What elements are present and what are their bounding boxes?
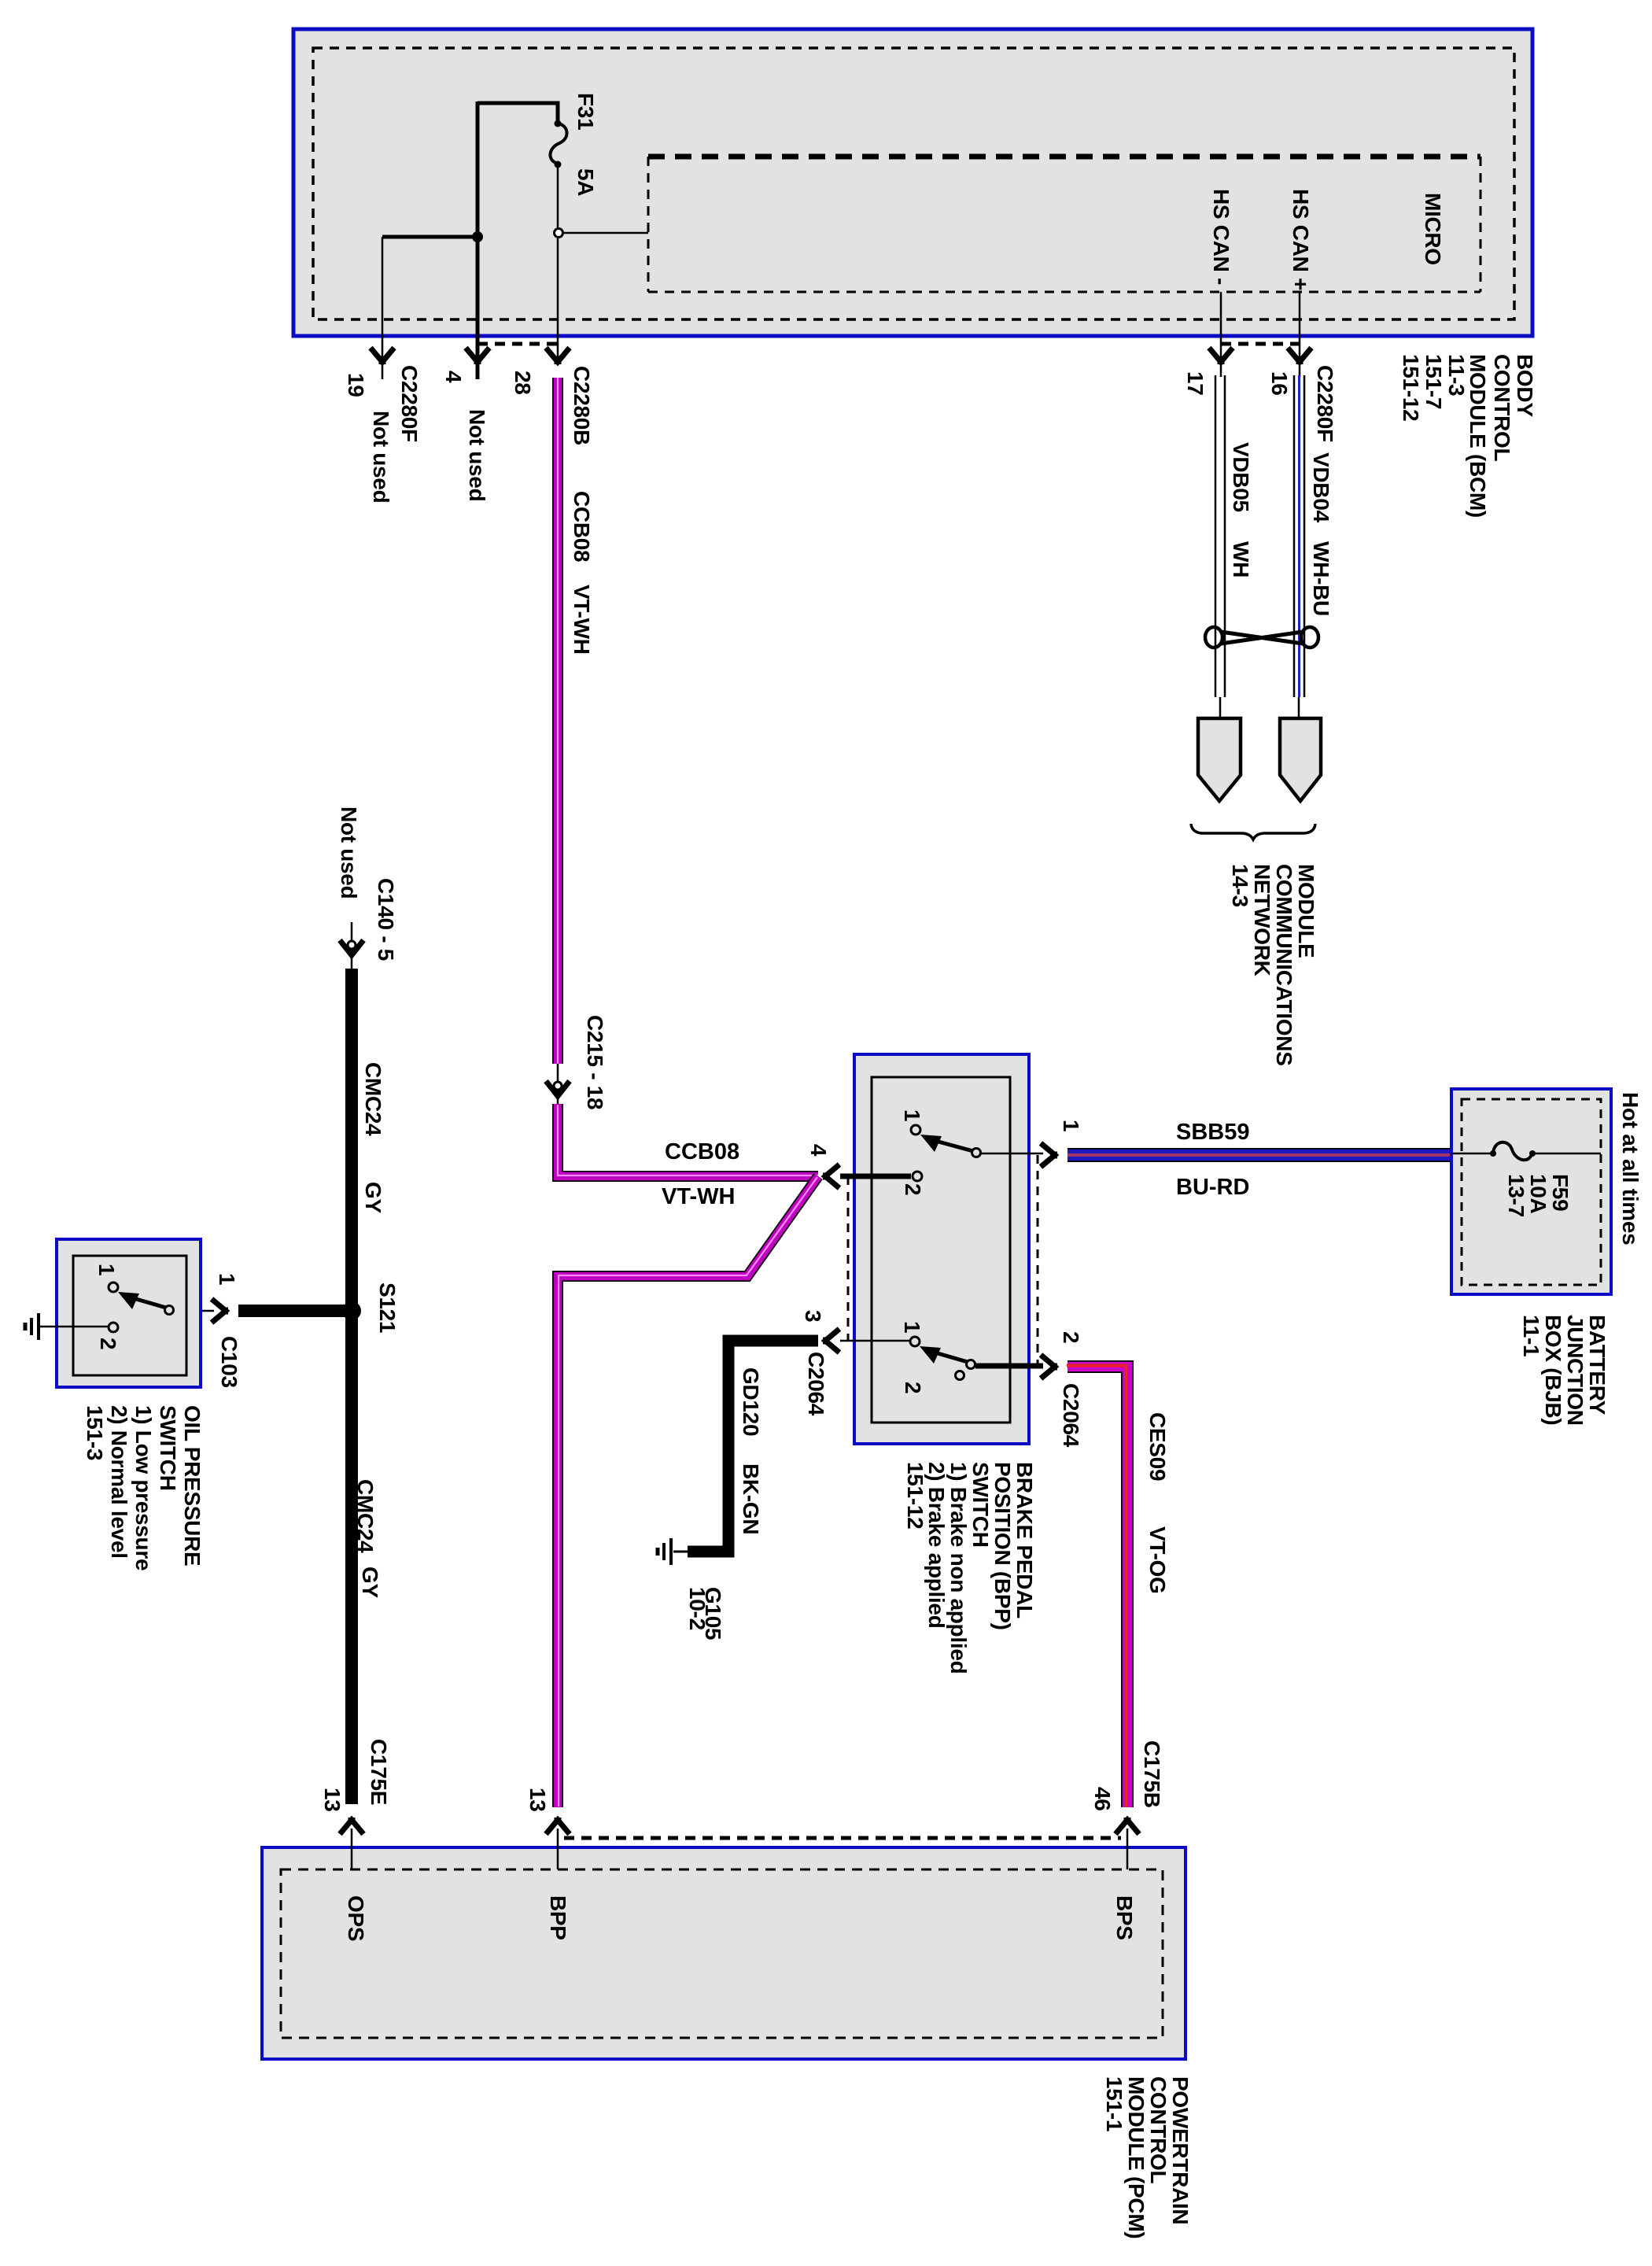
pin 4 connector arrow (BPP left) — [823, 1164, 839, 1188]
svg-text:VDB04: VDB04 — [1309, 452, 1333, 522]
svg-text:VT-WH: VT-WH — [570, 585, 594, 655]
wire BCM pin 16 lead — [1299, 292, 1301, 377]
switch SW1 terminal 1 circle — [911, 1125, 920, 1135]
wire pin 19 lead — [382, 237, 384, 379]
wire terminal 2 to ground — [39, 1326, 109, 1328]
BPP inner rectangle — [872, 1077, 1010, 1423]
ground (OPS) — [25, 1313, 39, 1340]
wire terminal 1 to pin 3 — [840, 1340, 910, 1342]
svg-text:MICRO: MICRO — [1421, 193, 1445, 265]
svg-text:1: 1 — [215, 1273, 239, 1285]
svg-text:BATTERY: BATTERY — [1585, 1315, 1610, 1415]
svg-text:C103: C103 — [217, 1336, 242, 1388]
splice S121 junction dot — [342, 1301, 361, 1320]
brace grouping network — [1191, 824, 1315, 840]
svg-text:1: 1 — [94, 1264, 119, 1275]
switch S2 common circle — [165, 1306, 174, 1315]
wire internal thick vertical (pin 4 feed) — [476, 101, 480, 379]
terminal lug left — [1198, 718, 1241, 801]
switch S2 terminal 1 circle — [109, 1282, 118, 1292]
svg-text:13: 13 — [320, 1788, 345, 1812]
switch SW2 common circle — [967, 1360, 975, 1369]
svg-text:VT-WH: VT-WH — [662, 1184, 735, 1209]
OPS inner rectangle — [73, 1256, 186, 1375]
BJB inner dashed border — [1462, 1099, 1601, 1285]
wire CCB08 VT-WH lower run to PCM — [558, 1176, 818, 1807]
wire open terminal to MICRO box — [563, 232, 648, 234]
module U1 BODY CONTROL MODULE (BCM) box — [293, 29, 1532, 336]
svg-text:CCB08: CCB08 — [570, 491, 594, 562]
wire BCM pin 17 lead — [1220, 292, 1222, 377]
pin 3 connector arrow (BPP left bottom) — [823, 1329, 839, 1353]
ground G105 — [658, 1538, 688, 1565]
svg-text:2: 2 — [901, 1183, 925, 1195]
MICRO sub-box dashed — [648, 157, 1481, 292]
wire switch common to pin 1 — [981, 1153, 1043, 1155]
svg-text:17: 17 — [1183, 371, 1208, 396]
switch SW1 arm with arrowhead — [920, 1135, 973, 1152]
svg-text:GY: GY — [361, 1182, 385, 1213]
junction dot on thick wire — [472, 231, 483, 242]
svg-text:19: 19 — [344, 373, 368, 397]
svg-text:C2280F: C2280F — [1313, 365, 1337, 442]
wire BJB internal left — [1451, 1153, 1493, 1155]
svg-text:POSITION (BPP): POSITION (BPP) — [990, 1462, 1015, 1630]
node open terminal circle — [555, 229, 563, 238]
wire CCB08 VT-WH upper vertical run — [552, 378, 563, 1064]
svg-text:46: 46 — [1090, 1787, 1115, 1811]
svg-text:BPS: BPS — [1112, 1895, 1137, 1940]
wire internal bus to fuse F31 — [478, 103, 558, 122]
svg-text:MODULE (PCM): MODULE (PCM) — [1124, 2076, 1149, 2238]
svg-text:28: 28 — [511, 371, 535, 395]
svg-text:JUNCTION: JUNCTION — [1563, 1315, 1587, 1426]
module BATTERY JUNCTION BOX (BJB) — [1451, 1089, 1611, 1294]
wire internal branch to pin 19 — [382, 235, 478, 239]
svg-text:CCB08: CCB08 — [665, 1139, 739, 1164]
svg-text:SBB59: SBB59 — [1176, 1120, 1250, 1145]
switch SW2 arm with arrowhead — [920, 1346, 968, 1364]
wire fuse to pin 28 — [557, 237, 559, 360]
svg-text:151-1: 151-1 — [1102, 2076, 1127, 2131]
svg-text:BODY: BODY — [1513, 354, 1537, 417]
switch SW1 terminal 2 circle — [913, 1172, 922, 1181]
twist symbol capsule right — [1301, 627, 1318, 648]
switch S2 terminal 2 circle — [109, 1323, 118, 1332]
svg-text:CONTROL: CONTROL — [1490, 354, 1514, 462]
svg-text:13-7: 13-7 — [1504, 1174, 1528, 1217]
svg-text:GY: GY — [358, 1567, 382, 1598]
connector C215-18 inline — [546, 1064, 570, 1104]
wire SBB59 BU-RD — [1068, 1148, 1451, 1162]
twist crossing wires — [1221, 632, 1303, 644]
PCM inner dashed border — [281, 1869, 1163, 2038]
connector C140-5 inline — [340, 922, 363, 969]
pin 1 connector arrow (OPS) — [212, 1299, 228, 1323]
svg-text:Hot at all times: Hot at all times — [1618, 1092, 1643, 1245]
svg-text:13: 13 — [525, 1788, 550, 1812]
svg-text:1: 1 — [1059, 1120, 1083, 1131]
switch S2 arm with arrowhead — [118, 1292, 166, 1309]
svg-text:WH: WH — [1229, 541, 1253, 578]
svg-text:2) Normal level: 2) Normal level — [107, 1405, 131, 1559]
pin 1 connector arrow (BPP right top) — [1041, 1143, 1057, 1167]
svg-text:HS CAN +: HS CAN + — [1289, 189, 1313, 290]
svg-text:OPS: OPS — [344, 1895, 368, 1941]
pin 2 connector arrow (BPP right bottom) — [1041, 1355, 1057, 1378]
svg-text:10-2: 10-2 — [685, 1587, 710, 1630]
pin 16 connector arrow — [1288, 348, 1311, 364]
svg-text:VDB05: VDB05 — [1229, 442, 1253, 512]
wire S121 to OPS — [238, 1305, 352, 1317]
svg-text:Not used: Not used — [465, 409, 489, 501]
svg-text:WH-BU: WH-BU — [1309, 541, 1333, 616]
svg-text:1: 1 — [900, 1321, 924, 1333]
connector C2064 dashed line right — [1037, 1155, 1039, 1367]
svg-text:SWITCH: SWITCH — [156, 1405, 180, 1491]
switch SW2 terminal 1 circle — [910, 1337, 920, 1346]
svg-text:F59: F59 — [1548, 1174, 1573, 1211]
svg-text:GD120: GD120 — [739, 1367, 763, 1436]
svg-text:14-3: 14-3 — [1228, 864, 1252, 907]
BCM inner dashed border — [313, 48, 1514, 319]
svg-text:CMC24: CMC24 — [353, 1479, 378, 1553]
svg-text:CONTROL: CONTROL — [1146, 2076, 1171, 2184]
svg-text:BU-RD: BU-RD — [1176, 1175, 1249, 1200]
wire fuse output lead — [557, 164, 559, 229]
svg-text:C2280B: C2280B — [570, 366, 594, 445]
svg-text:MODULE: MODULE — [1294, 864, 1318, 958]
svg-text:151-12: 151-12 — [1399, 354, 1423, 421]
wire switch SW2 common to pin 2 — [975, 1364, 1043, 1369]
svg-text:POWERTRAIN: POWERTRAIN — [1168, 2076, 1193, 2224]
svg-text:3: 3 — [801, 1310, 825, 1322]
svg-text:BOX (BJB): BOX (BJB) — [1541, 1315, 1565, 1425]
svg-text:151-3: 151-3 — [83, 1405, 107, 1460]
connector C2064 dashed line left — [847, 1176, 850, 1341]
module S2 OIL PRESSURE SWITCH box — [57, 1239, 201, 1387]
pin 19 connector arrow — [371, 348, 394, 364]
svg-text:VT-OG: VT-OG — [1145, 1526, 1170, 1594]
wire CCB08 VT-WH to BPP pin 4 — [558, 1104, 818, 1176]
svg-text:BK-GN: BK-GN — [739, 1463, 763, 1534]
connector C2280B dashed bracket pins 4-28 — [478, 342, 560, 346]
switch SW2 terminal 2 circle (open) — [956, 1371, 964, 1380]
svg-text:C2064: C2064 — [804, 1352, 828, 1416]
svg-text:C215 - 18: C215 - 18 — [583, 1015, 607, 1109]
module S1 BRAKE PEDAL POSITION (BPP) SWITCH box — [854, 1054, 1029, 1444]
wire lead into left terminal — [1219, 697, 1222, 720]
svg-text:C175E: C175E — [367, 1739, 391, 1805]
svg-text:1) Brake non applied: 1) Brake non applied — [946, 1462, 971, 1674]
svg-text:S121: S121 — [375, 1282, 400, 1333]
svg-text:Not used: Not used — [337, 806, 361, 899]
svg-text:151-7: 151-7 — [1422, 354, 1446, 409]
svg-text:SWITCH: SWITCH — [968, 1462, 993, 1548]
svg-text:F31: F31 — [573, 93, 598, 130]
pin 17 connector arrow — [1209, 348, 1233, 364]
svg-text:2: 2 — [96, 1338, 120, 1349]
svg-text:CES09: CES09 — [1145, 1412, 1170, 1481]
fuse F31 5A — [550, 120, 566, 168]
wire BJB internal right — [1532, 1153, 1601, 1155]
svg-text:10A: 10A — [1526, 1174, 1551, 1214]
wire lead into right terminal — [1298, 697, 1300, 720]
svg-text:C2064: C2064 — [1059, 1383, 1083, 1448]
svg-text:11-1: 11-1 — [1519, 1315, 1543, 1356]
svg-text:HS CAN -: HS CAN - — [1209, 189, 1233, 285]
svg-text:1) Low pressure: 1) Low pressure — [131, 1405, 156, 1570]
svg-text:C2280F: C2280F — [397, 365, 422, 442]
svg-text:BRAKE PEDAL: BRAKE PEDAL — [1012, 1462, 1037, 1618]
svg-text:OIL PRESSURE: OIL PRESSURE — [180, 1405, 205, 1566]
connector C2280F dashed bracket pins 17-16 — [1221, 342, 1300, 346]
switch SW1 common circle — [972, 1149, 981, 1157]
pin 13 connector arrow (OPS input) — [340, 1818, 363, 1869]
svg-text:C140 - 5: C140 - 5 — [374, 878, 398, 961]
pin 13 connector arrow (BPP input) — [546, 1818, 570, 1869]
svg-text:2: 2 — [901, 1382, 925, 1393]
svg-text:11-3: 11-3 — [1444, 354, 1469, 396]
svg-text:2: 2 — [1059, 1331, 1083, 1343]
svg-text:Not used: Not used — [369, 411, 393, 503]
wire VDB05 WH twisted pair (left) — [1215, 375, 1225, 697]
wire CES09 VT-OG — [1067, 1366, 1127, 1808]
wire CMC24 GY trunk — [345, 969, 358, 1804]
wire GD120 BK-GN — [688, 1341, 818, 1552]
wire arrow to switch — [174, 1310, 214, 1312]
svg-text:151-12: 151-12 — [903, 1462, 927, 1529]
svg-text:NETWORK: NETWORK — [1250, 864, 1274, 976]
terminal lug right — [1280, 718, 1321, 801]
fuse F59 10A — [1490, 1142, 1536, 1161]
svg-text:16: 16 — [1267, 371, 1292, 396]
pin 46 connector arrow (BPS input) — [1115, 1818, 1139, 1869]
wire pin4 to switch terminal 2 — [840, 1174, 911, 1179]
twist symbol capsule left — [1205, 627, 1222, 648]
svg-text:BPP: BPP — [546, 1895, 570, 1940]
svg-text:COMMUNICATIONS: COMMUNICATIONS — [1272, 864, 1296, 1066]
svg-text:4: 4 — [806, 1144, 831, 1157]
svg-text:5A: 5A — [573, 168, 598, 196]
wire VDB04 WH-BU twisted pair (right) — [1294, 375, 1304, 697]
pin 28 connector arrow — [546, 348, 570, 364]
connector C175B dashed bracket — [564, 1836, 1121, 1840]
svg-text:CMC24: CMC24 — [361, 1062, 385, 1136]
svg-text:4: 4 — [441, 371, 466, 383]
svg-text:1: 1 — [900, 1109, 924, 1121]
svg-text:C175B: C175B — [1140, 1740, 1164, 1808]
module U2 POWERTRAIN CONTROL MODULE (PCM) box — [262, 1847, 1186, 2059]
pin 4 connector arrow — [466, 348, 489, 364]
